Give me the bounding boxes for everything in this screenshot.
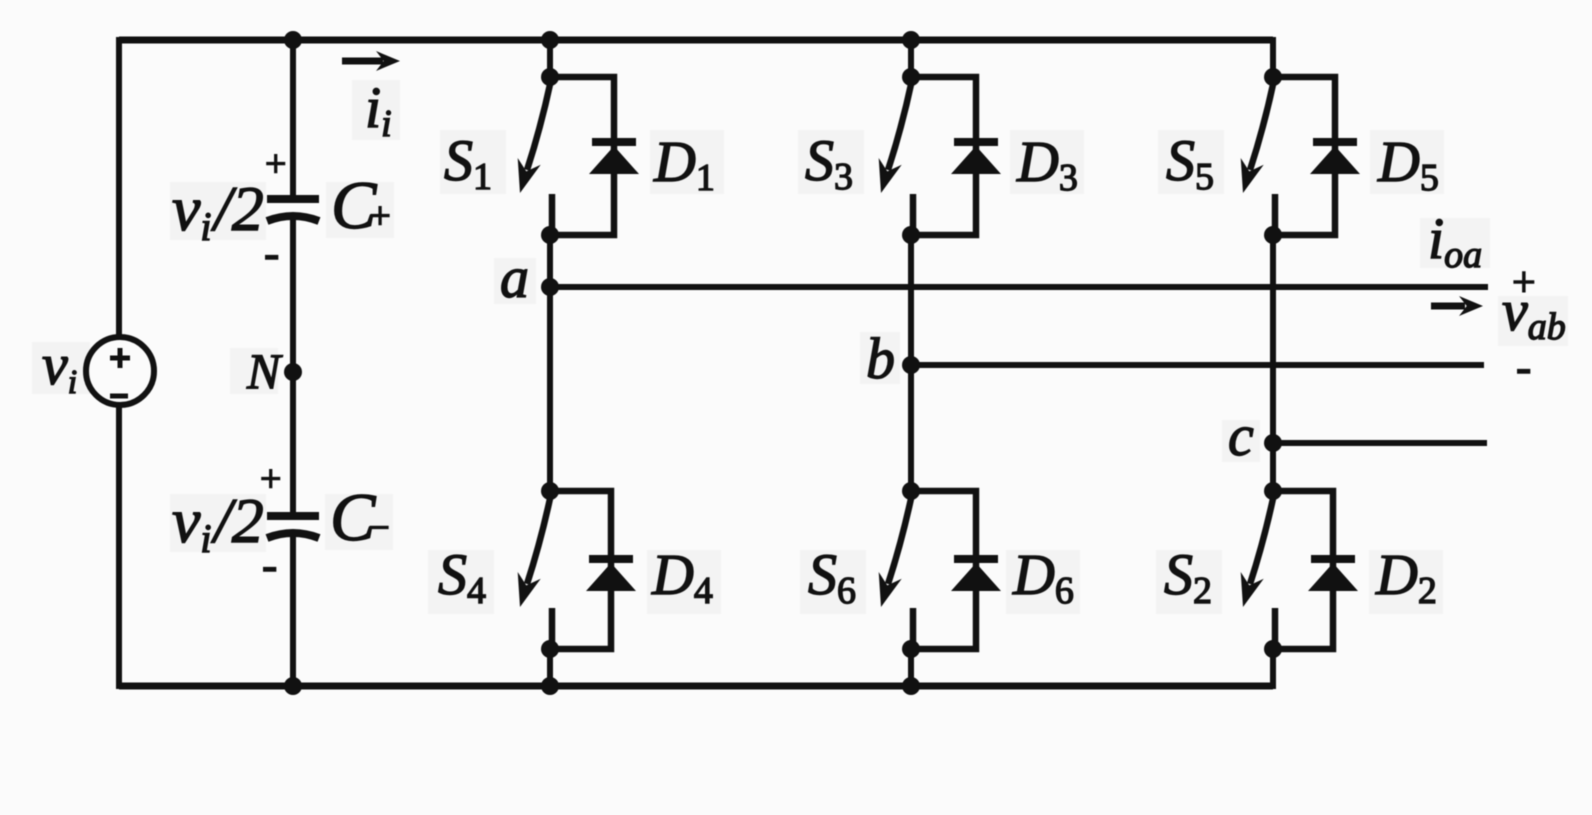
capacitor C- [267,516,319,538]
svg-text:N: N [246,343,283,399]
wire phase-c leg [1270,37,1276,77]
switch S3 [888,77,976,235]
current arrow ii [342,51,400,71]
wire top DC rail [119,37,1273,44]
voltage source vi [86,337,154,405]
switch S5 [1250,77,1335,235]
diode D6 [951,559,1001,591]
wire phase a output [550,284,1488,290]
current arrow ioa [1431,296,1483,316]
svg-text:c: c [1228,403,1254,468]
node c [1264,434,1282,452]
wire left source branch upper [116,37,122,338]
node b [902,356,920,374]
svg-text:-: - [264,227,279,278]
wire phase c output [1273,440,1487,446]
svg-text:+: + [265,143,286,185]
svg-text:a: a [500,245,529,310]
diode D2 [1308,559,1358,591]
wire phase b output [911,362,1484,368]
switch S6 [888,491,976,649]
wire capacitor branch middle [290,217,296,513]
svg-text:-: - [1516,341,1531,392]
diode D3 [951,142,1001,174]
diode D4 [586,559,636,591]
wire capacitor branch top [290,40,296,196]
wire phase-a leg [547,40,553,77]
wire capacitor branch bottom [290,534,296,686]
switch S1 [527,77,614,235]
wire phase-b leg [908,40,914,77]
wire bottom DC rail [119,683,1273,690]
switch S4 [527,491,611,649]
capacitor C+ [267,199,319,221]
svg-text:b: b [866,326,895,391]
diode D5 [1310,142,1360,174]
switch S2 [1250,491,1333,649]
node a [541,278,559,296]
svg-text:-: - [262,539,277,590]
svg-text:/2: /2 [211,485,264,556]
node N [284,363,302,381]
wire left source branch lower [116,404,122,689]
diode D1 [589,142,639,174]
svg-text:/2: /2 [211,173,264,244]
